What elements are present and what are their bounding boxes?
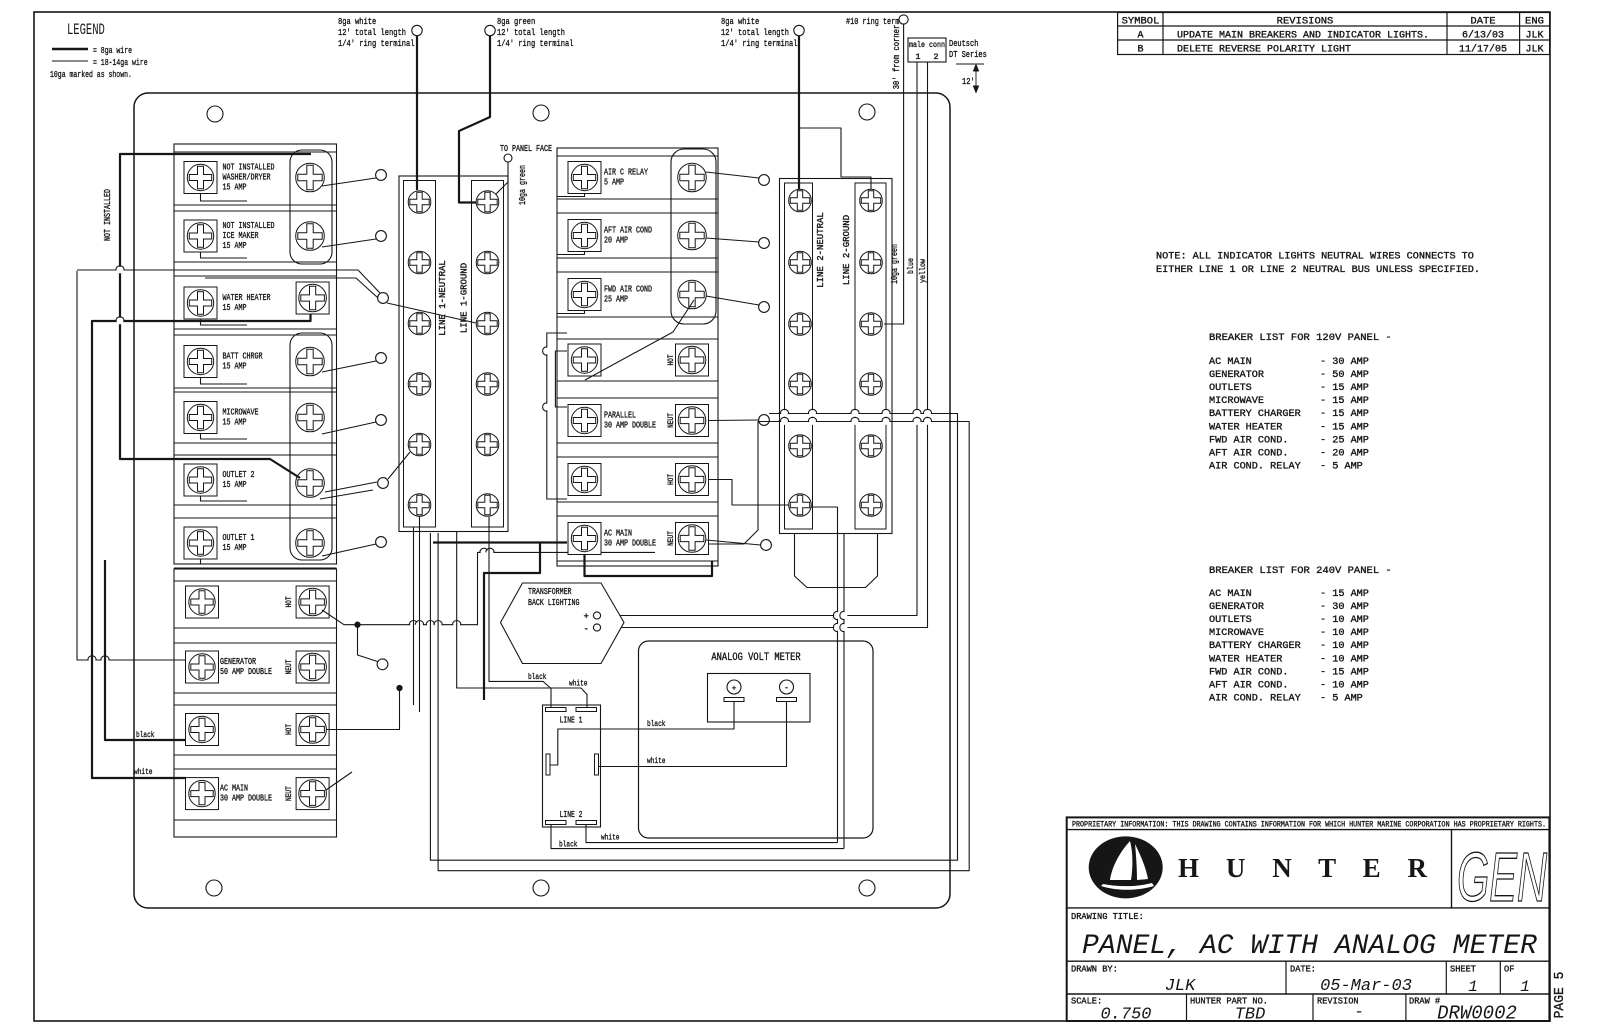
svg-text:HOT: HOT <box>667 354 676 365</box>
wire 8ga AC MAIN mid to lower area <box>433 541 567 543</box>
title block revision cell <box>1317 997 1364 1022</box>
svg-text:TBD: TBD <box>1235 1006 1266 1025</box>
dimension 12 ft <box>956 64 984 93</box>
CB10 right cross terminal <box>296 714 329 746</box>
svg-text:A: A <box>1137 31 1143 42</box>
mounting hole bottom middle <box>533 880 549 896</box>
revisions table <box>1118 13 1550 56</box>
CB18 left screw mid <box>568 523 601 555</box>
wire to panel face down to LINE 1-GROUND <box>496 162 508 194</box>
svg-text:white: white <box>569 679 588 689</box>
svg-text:JLK: JLK <box>1525 31 1543 42</box>
breaker CB5 MICROWAVE 15 AMP <box>174 392 337 443</box>
annotation Deutsch DT Series <box>949 39 987 60</box>
svg-text:DRW0002: DRW0002 <box>1437 1003 1517 1025</box>
LINE 1-NEUTRAL screw 4 <box>408 373 431 396</box>
LINE 2-GROUND screw 4 <box>860 373 883 396</box>
LINE 1-GROUND screw 4 <box>476 373 499 396</box>
svg-text:PANEL, AC WITH ANALOG METER: PANEL, AC WITH ANALOG METER <box>1082 931 1537 962</box>
svg-text:DATE: DATE <box>1470 16 1495 28</box>
title block part no cell <box>1190 997 1268 1025</box>
svg-text:GEN: GEN <box>1457 838 1547 916</box>
ring terminal 2 <box>485 25 495 35</box>
wire mid row4 diagonal to FWD cross <box>585 300 694 380</box>
CB12 left screw mid <box>568 162 601 194</box>
LINE 2-NEUTRAL screw 6 <box>789 494 812 517</box>
wire CB11 stub <box>326 772 352 790</box>
svg-text:-: - <box>784 684 789 693</box>
svg-text:black: black <box>647 719 666 729</box>
wire generator hot link from CB8 cross <box>322 552 655 624</box>
indicator light M3 <box>759 302 770 313</box>
CB10 left screw <box>186 714 219 746</box>
svg-text:white: white <box>601 833 620 843</box>
CB11 right cross terminal <box>296 778 329 810</box>
selector switch LINE 1 / LINE 2 <box>543 705 601 827</box>
svg-text:12' total length: 12' total length <box>497 27 565 38</box>
LINE 1-GROUND screw 2 <box>476 251 499 274</box>
svg-text:12' total length: 12' total length <box>338 27 406 38</box>
svg-text:OUTLETS: OUTLETS <box>1209 383 1252 394</box>
transformer back lighting T1 <box>501 583 625 664</box>
breaker list 120V <box>1209 332 1392 472</box>
ring terminal 1 <box>412 25 422 35</box>
svg-text:white: white <box>134 767 153 777</box>
indicator light L5 <box>376 415 387 426</box>
terminal to panel face <box>504 154 512 162</box>
wire funnel left drop white <box>837 507 839 843</box>
svg-text:NEUT: NEUT <box>285 786 294 801</box>
breaker CB15 PARALLEL HOT half <box>557 339 718 381</box>
svg-text:LINE 1-NEUTRAL: LINE 1-NEUTRAL <box>437 260 448 336</box>
middle breaker column outer rect <box>557 148 718 566</box>
svg-text:Deutsch: Deutsch <box>949 39 978 49</box>
svg-text:50 AMP DOUBLE: 50 AMP DOUBLE <box>220 666 272 677</box>
svg-text:NOTE: ALL INDICATOR LIGHTS NEU: NOTE: ALL INDICATOR LIGHTS NEUTRAL WIRES… <box>1156 252 1474 263</box>
svg-text:DRAW #: DRAW # <box>1409 997 1441 1007</box>
wire hook mid row1 <box>557 194 585 197</box>
svg-text:male conn: male conn <box>909 40 945 50</box>
svg-text:- 10 AMP: - 10 AMP <box>1320 680 1369 691</box>
svg-text:TRANSFORMER: TRANSFORMER <box>528 586 572 597</box>
svg-text:30 AMP DOUBLE: 30 AMP DOUBLE <box>220 793 272 804</box>
svg-text:-: - <box>1354 1003 1364 1021</box>
LINE 1-NEUTRAL screw 6 <box>408 494 431 517</box>
LINE 2-NEUTRAL screw 5 <box>789 435 812 458</box>
svg-text:5 AMP: 5 AMP <box>604 177 624 188</box>
svg-text:- 15 AMP: - 15 AMP <box>1320 396 1369 407</box>
CB12 right cross mid <box>678 163 707 192</box>
svg-text:DRAWING TITLE:: DRAWING TITLE: <box>1071 912 1144 922</box>
wire 8ga trunk to washer row <box>120 154 311 478</box>
annotation 8ga white wire 3 <box>721 16 798 49</box>
svg-text:- 15 AMP: - 15 AMP <box>1320 667 1369 678</box>
indicator light L4 <box>376 353 387 364</box>
svg-text:12': 12' <box>962 77 975 87</box>
svg-text:- 10 AMP: - 10 AMP <box>1320 615 1369 626</box>
analog volt meter box <box>639 641 874 838</box>
LINE 2-NEUTRAL screw 2 <box>789 251 812 274</box>
breaker CB13 AFT AIR COND 20 AMP <box>557 213 718 258</box>
wire M2 diagonal <box>706 238 759 242</box>
mounting hole bottom left <box>206 880 222 896</box>
svg-text:ENG: ENG <box>1525 16 1544 28</box>
svg-text:REVISIONS: REVISIONS <box>1277 16 1334 28</box>
wire L6 diagonal pair <box>320 482 377 499</box>
wire M7 diagonal <box>706 540 761 545</box>
svg-text:AIR COND. RELAY: AIR COND. RELAY <box>1209 693 1301 704</box>
svg-text:FWD AIR COND.: FWD AIR COND. <box>1209 435 1288 446</box>
junction dot D2 <box>397 685 402 690</box>
LINE 2-GROUND bus bar <box>855 183 886 529</box>
CB7 left screw <box>184 527 217 559</box>
breaker CB6 OUTLET 2 15 AMP <box>174 455 337 505</box>
svg-text:yellow: yellow <box>918 258 928 283</box>
left breaker column lower outer rect <box>174 569 337 837</box>
svg-text:AC MAIN: AC MAIN <box>1209 589 1252 600</box>
indicator group rounded rect middle rows 1-3 <box>671 149 716 324</box>
LINE 2-NEUTRAL bus bar <box>785 183 813 529</box>
svg-text:TO PANEL FACE: TO PANEL FACE <box>500 144 552 154</box>
svg-text:PROPRIETARY INFORMATION: THIS: PROPRIETARY INFORMATION: THIS DRAWING CO… <box>1072 820 1546 830</box>
wire meter + black to switch <box>550 702 734 766</box>
meter - terminal <box>777 680 797 702</box>
svg-text:- 30 AMP: - 30 AMP <box>1320 357 1369 368</box>
CB14 left screw mid <box>568 279 601 311</box>
CB5 left screw <box>184 402 217 434</box>
wire left W5 black to hot row <box>105 560 186 740</box>
svg-text:- 15 AMP: - 15 AMP <box>1320 409 1369 420</box>
CB16 right cross mid <box>676 405 709 437</box>
wire 10ga green from ring terminal to LINE 2-GROUND screw 3 <box>884 24 904 324</box>
svg-text:+: + <box>584 612 589 622</box>
left breaker column upper outer rect <box>174 144 337 564</box>
svg-text:30 AMP DOUBLE: 30 AMP DOUBLE <box>604 538 656 549</box>
wire L6 to LINE 1-NEUTRAL screw 5 <box>388 452 410 479</box>
wire L7 diagonal <box>322 544 376 556</box>
svg-text:BACK LIGHTING: BACK LIGHTING <box>528 597 580 608</box>
wire jumper hookA row4 to row6 <box>547 333 567 499</box>
svg-text:NEUT: NEUT <box>667 531 676 546</box>
svg-text:OF: OF <box>1504 965 1514 975</box>
svg-text:- 30 AMP: - 30 AMP <box>1320 602 1369 613</box>
svg-text:MICROWAVE: MICROWAVE <box>1209 628 1264 639</box>
indicator group rounded rect rows 1-2 <box>290 150 332 264</box>
wire yellow from male conn pin 2 to transformer - <box>601 62 928 628</box>
svg-text:AC MAIN: AC MAIN <box>1209 357 1252 368</box>
indicator light M1 <box>759 175 770 186</box>
svg-text:WATER HEATER: WATER HEATER <box>1209 654 1282 665</box>
breaker CB9 GENERATOR 50 AMP DOUBLE <box>174 643 337 693</box>
svg-text:ANALOG VOLT METER: ANALOG VOLT METER <box>711 652 801 664</box>
svg-text:WATER HEATER: WATER HEATER <box>1209 422 1282 433</box>
wire hook mid row2 <box>557 252 585 255</box>
breaker CB14 FWD AIR COND 25 AMP <box>557 272 718 317</box>
breaker CB4 BATT CHRGR 15 AMP <box>174 335 337 388</box>
svg-text:BREAKER LIST FOR 240V PANEL -: BREAKER LIST FOR 240V PANEL - <box>1209 565 1392 577</box>
transformer terminal - <box>593 624 600 631</box>
CB9 right cross terminal <box>296 651 329 683</box>
wire v413 below LINE 1-NEUTRAL <box>413 527 415 705</box>
svg-text:DT Series: DT Series <box>949 50 987 60</box>
LINE 2 bus assembly outer rect <box>780 179 893 534</box>
LINE 1-NEUTRAL screw 5 <box>408 433 431 456</box>
indicator light M7 ac main <box>761 540 772 551</box>
svg-text:25 AMP: 25 AMP <box>604 294 628 305</box>
svg-text:H U N T E R: H U N T E R <box>1178 853 1428 883</box>
LINE 2-NEUTRAL screw 1 <box>789 189 812 212</box>
wire 8ga white drop to LINE 1-NEUTRAL <box>416 36 418 190</box>
wire hooks under left screws <box>201 194 248 565</box>
LINE 1-NEUTRAL screw 3 <box>408 312 431 335</box>
CB11 left screw <box>186 778 219 810</box>
svg-text:15 AMP: 15 AMP <box>223 361 247 372</box>
wire v419 from LINE 1-NEUTRAL screw 6 <box>419 517 421 713</box>
wire switch bottom black <box>551 825 844 849</box>
wire jumper hookB row4 to row5 <box>555 351 567 407</box>
wire breakout funnel below LINE 2 bus <box>795 534 878 588</box>
CB2 left screw <box>184 220 217 252</box>
indicator group rounded rect rows 4-7 <box>290 333 332 560</box>
svg-text:15 AMP: 15 AMP <box>223 479 247 490</box>
wire left W4 white to AC MAIN <box>92 314 311 778</box>
CB3 right screw square <box>296 282 329 314</box>
svg-text:+: + <box>732 684 737 693</box>
LINE 1-NEUTRAL screw 2 <box>408 251 431 274</box>
svg-text:15 AMP: 15 AMP <box>223 542 247 553</box>
wire branch to LINE 2-GROUND screw 1 <box>799 128 871 190</box>
breaker list 240V <box>1209 565 1392 704</box>
breaker CB12 AIR C RELAY 5 AMP <box>557 156 718 199</box>
svg-text:- 50 AMP: - 50 AMP <box>1320 370 1369 381</box>
wire loop B from LINE1 area to AC MAIN mid <box>438 422 969 871</box>
svg-text:30' from corner: 30' from corner <box>892 25 902 90</box>
LINE 2-GROUND screw 3 <box>860 313 883 336</box>
svg-text:GENERATOR: GENERATOR <box>1209 602 1264 613</box>
svg-text:30 AMP DOUBLE: 30 AMP DOUBLE <box>604 420 656 431</box>
indicator light L7 <box>376 537 387 548</box>
CB18 right cross mid <box>676 523 709 555</box>
svg-text:8ga green: 8ga green <box>497 16 535 27</box>
indicator light generator <box>377 659 388 670</box>
LINE 2-GROUND screw 6 <box>860 494 883 517</box>
LINE 1-GROUND screw 3 <box>476 312 499 335</box>
ring terminal 4 small <box>899 15 908 24</box>
svg-text:LINE 2: LINE 2 <box>560 810 583 820</box>
svg-text:DATE:: DATE: <box>1290 965 1316 975</box>
mounting hole top right <box>859 104 875 120</box>
svg-text:white: white <box>647 756 666 766</box>
svg-text:0.750: 0.750 <box>1100 1006 1151 1025</box>
svg-text:black: black <box>528 672 547 682</box>
svg-text:2: 2 <box>933 52 938 62</box>
wire funnel right drop black <box>843 534 845 849</box>
svg-text:20 AMP: 20 AMP <box>604 235 628 246</box>
wire switch bottom white <box>586 825 838 843</box>
mounting hole top left <box>207 106 223 122</box>
LINE 1-NEUTRAL bus bar <box>404 181 436 528</box>
svg-text:BATTERY CHARGER: BATTERY CHARGER <box>1209 409 1301 420</box>
annotation 8ga green wire 2 <box>497 16 574 49</box>
breaker CB17 AC MAIN HOT half mid <box>557 457 718 502</box>
svg-text:- 10 AMP: - 10 AMP <box>1320 641 1369 652</box>
CB4 right cross terminal <box>296 347 325 376</box>
mounting hole bottom right <box>859 880 875 896</box>
CB17 right cross mid <box>676 464 709 496</box>
indicator light L3 <box>378 293 389 304</box>
svg-text:10ga marked as shown.: 10ga marked as shown. <box>50 69 132 80</box>
legend 18-14ga wire sample line <box>52 60 88 62</box>
svg-text:- 20 AMP: - 20 AMP <box>1320 448 1369 459</box>
wire blue from male conn pin 1 to transformer + <box>601 62 917 616</box>
CB6 right cross terminal <box>296 469 325 498</box>
wire black from LINE 1-GROUND screw 6 to switch <box>489 517 551 708</box>
wire M1 diagonal <box>706 172 759 178</box>
wire L3 double diagonal pair <box>77 270 380 298</box>
svg-text:1/4' ring terminal: 1/4' ring terminal <box>721 38 798 49</box>
svg-text:blue: blue <box>906 258 916 274</box>
svg-text:11/17/05: 11/17/05 <box>1459 44 1507 56</box>
svg-text:HOT: HOT <box>285 596 294 607</box>
wire L4 diagonal <box>322 361 376 372</box>
LINE 2-GROUND screw 2 <box>860 251 883 274</box>
breaker CB8 AC MAIN HOT half <box>174 581 337 628</box>
svg-text:15 AMP: 15 AMP <box>223 240 247 251</box>
svg-text:15 AMP: 15 AMP <box>223 302 247 313</box>
svg-text:DRAWN BY:: DRAWN BY: <box>1071 965 1118 975</box>
svg-text:HOT: HOT <box>285 724 294 735</box>
wire 8ga green drop to LINE 1-GROUND <box>459 36 490 203</box>
svg-text:1/4' ring terminal: 1/4' ring terminal <box>497 38 574 49</box>
svg-text:black: black <box>559 840 578 850</box>
svg-text:- 15 AMP: - 15 AMP <box>1320 422 1369 433</box>
svg-text:- 15 AMP: - 15 AMP <box>1320 589 1369 600</box>
svg-text:MICROWAVE: MICROWAVE <box>1209 396 1264 407</box>
meter terminal block <box>708 674 811 723</box>
wire hook mid row3 <box>557 311 585 314</box>
CB4 left screw <box>184 346 217 378</box>
svg-text:12' total length: 12' total length <box>721 27 789 38</box>
LINE 2-GROUND screw 5 <box>860 435 883 458</box>
wire meter - white to switch <box>599 702 787 767</box>
meter + terminal <box>724 680 744 702</box>
svg-text:- 5 AMP: - 5 AMP <box>1320 461 1363 472</box>
svg-text:B: B <box>1137 45 1143 56</box>
svg-text:BATTERY CHARGER: BATTERY CHARGER <box>1209 641 1301 652</box>
wire D2 to CB10 cross <box>326 688 400 730</box>
svg-text:NEUT: NEUT <box>667 413 676 428</box>
title block outer <box>1067 817 1550 1021</box>
breaker CB3 WATER HEATER 15 AMP <box>174 276 337 329</box>
svg-text:DELETE REVERSE POLARITY LIGHT: DELETE REVERSE POLARITY LIGHT <box>1177 45 1351 56</box>
svg-text:LINE 1-GROUND: LINE 1-GROUND <box>459 262 470 333</box>
indicator light L2 <box>376 231 387 242</box>
wire loop A from LINE1 area to parallel light <box>430 414 957 861</box>
svg-text:LEGEND: LEGEND <box>67 21 105 39</box>
CB1 right cross terminal <box>296 163 325 192</box>
wire L2 diagonal <box>322 239 376 247</box>
title block drawn by cell <box>1071 965 1196 997</box>
LINE 1-NEUTRAL screw 1 <box>408 191 431 214</box>
title block draw no cell <box>1409 997 1517 1025</box>
CB6 left screw <box>184 464 217 496</box>
LINE 1-GROUND screw 6 <box>476 494 499 517</box>
svg-text:OUTLETS: OUTLETS <box>1209 615 1252 626</box>
title block of cell <box>1504 965 1530 997</box>
CB13 right cross mid <box>678 221 707 250</box>
CB13 left screw mid <box>568 220 601 252</box>
CB3 left screw <box>184 287 217 319</box>
title block date cell <box>1290 965 1412 997</box>
CB14 right cross mid <box>678 280 707 309</box>
svg-text:AFT AIR COND.: AFT AIR COND. <box>1209 680 1288 691</box>
svg-text:black: black <box>136 730 155 740</box>
svg-text:-: - <box>584 625 589 635</box>
breaker CB10 AC MAIN HOT half 2 <box>174 705 337 755</box>
svg-text:1/4' ring terminal: 1/4' ring terminal <box>338 38 415 49</box>
svg-text:- 10 AMP: - 10 AMP <box>1320 654 1369 665</box>
svg-text:6/13/03: 6/13/03 <box>1462 30 1504 42</box>
CB17 left screw mid <box>568 464 601 496</box>
LINE 2-NEUTRAL screw 3 <box>789 313 812 336</box>
breaker CB11 AC MAIN 30 AMP DOUBLE <box>174 769 337 820</box>
panel face plate outline <box>134 93 950 908</box>
svg-text:05-Mar-03: 05-Mar-03 <box>1320 977 1412 996</box>
svg-text:15 AMP: 15 AMP <box>223 182 247 193</box>
wire left W3 to generator <box>77 271 186 660</box>
junction dot D1 <box>355 622 360 627</box>
svg-text:UPDATE MAIN BREAKERS AND INDIC: UPDATE MAIN BREAKERS AND INDICATOR LIGHT… <box>1177 31 1429 42</box>
wire 8ga AC MAIN mid under row <box>585 555 713 577</box>
breaker CB1 NOT INSTALLED WASHER/DRYER 15 AMP <box>174 152 337 205</box>
GEN logo <box>1451 830 1453 908</box>
breaker CB7 OUTLET 1 15 AMP <box>174 518 337 568</box>
LINE 1-GROUND bus bar <box>472 181 504 528</box>
ring terminal 3 <box>794 25 804 35</box>
CB5 right cross terminal <box>296 403 325 432</box>
svg-text:8ga white: 8ga white <box>721 16 759 27</box>
svg-text:= 8ga wire: = 8ga wire <box>93 45 132 56</box>
CB2 right cross terminal <box>296 222 325 251</box>
svg-text:8ga white: 8ga white <box>338 16 376 27</box>
svg-text:- 10 AMP: - 10 AMP <box>1320 628 1369 639</box>
wire LINE 2-NEUTRAL screw6 jumper <box>811 506 838 508</box>
breaker CB18 AC MAIN 30 AMP DOUBLE mid <box>557 516 718 561</box>
svg-text:GENERATOR: GENERATOR <box>1209 370 1264 381</box>
wire L3 to LINE 1-GROUND screw 3 <box>387 303 476 323</box>
title block scale cell <box>1071 997 1152 1025</box>
svg-text:AIR COND. RELAY: AIR COND. RELAY <box>1209 461 1301 472</box>
svg-text:JLK: JLK <box>1525 45 1543 56</box>
svg-text:- 5 AMP: - 5 AMP <box>1320 693 1363 704</box>
title block sheet cell <box>1450 965 1478 997</box>
LINE 1-GROUND screw 5 <box>476 433 499 456</box>
wire 8ga white drop to LINE 2-NEUTRAL <box>798 36 800 190</box>
svg-text:LINE 1: LINE 1 <box>560 716 583 726</box>
male connector Deutsch DT <box>908 38 946 62</box>
svg-text:NOT INSTALLED: NOT INSTALLED <box>103 189 113 241</box>
wire white from bus bottom to switch <box>457 532 587 708</box>
CB1 left screw <box>184 162 217 194</box>
indicator light L6 <box>378 478 389 489</box>
CB15 right cross mid <box>676 344 709 376</box>
breaker CB16 PARALLEL 30 AMP DOUBLE <box>557 398 718 443</box>
CB15 left screw mid <box>568 344 601 376</box>
annotation 8ga white wire 1 <box>338 16 415 49</box>
legend 8ga wire sample line <box>52 48 88 51</box>
svg-text:1: 1 <box>915 52 920 62</box>
CB8 right cross terminal <box>296 586 329 618</box>
